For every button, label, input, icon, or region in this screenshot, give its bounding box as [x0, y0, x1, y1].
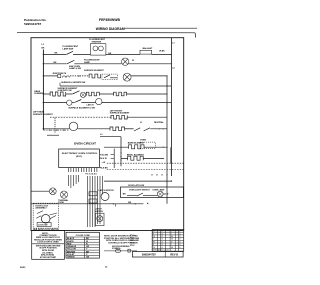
- svg-text:18: 18: [179, 239, 181, 241]
- svg-text:BLACK: BLACK: [67, 237, 75, 240]
- svg-text:BK: BK: [153, 241, 155, 243]
- svg-text:14: 14: [179, 233, 181, 235]
- svg-text:ELECTRONIC OVEN CONTROL: ELECTRONIC OVEN CONTROL: [62, 153, 98, 155]
- svg-text:Y: Y: [171, 233, 172, 235]
- svg-text:14: 14: [161, 244, 163, 246]
- svg-text:P4-5 BK: P4-5 BK: [100, 153, 108, 156]
- svg-text:BAKE ELEMENT: BAKE ELEMENT: [128, 142, 145, 145]
- svg-text:ELEMENT: ELEMENT: [34, 93, 44, 95]
- svg-text:LAMP: LAMP: [84, 61, 91, 64]
- svg-text:18: 18: [161, 239, 163, 241]
- svg-text:COLOR CODE: COLOR CODE: [76, 235, 91, 237]
- svg-text:V: V: [153, 239, 154, 241]
- svg-text:W-BK: W-BK: [159, 50, 165, 52]
- svg-text:AT ROOM TEMP: AT ROOM TEMP: [40, 256, 57, 259]
- svg-text:5995344787: 5995344787: [24, 22, 41, 26]
- svg-text:10: 10: [161, 241, 163, 243]
- svg-text:SURFACE ELEMENT & SW: SURFACE ELEMENT & SW: [68, 106, 94, 109]
- svg-text:W: W: [166, 194, 168, 196]
- svg-text:STARTER: STARTER: [92, 40, 102, 43]
- svg-text:P1 2 3 4 5 6: P1 2 3 4 5 6: [86, 172, 98, 175]
- svg-text:BK: BK: [123, 194, 127, 196]
- svg-text:+ W: + W: [102, 162, 106, 164]
- svg-text:JUNCTION P4: JUNCTION P4: [52, 72, 67, 75]
- svg-text:12: 12: [179, 241, 181, 243]
- svg-text:OVEN LIGHT SWITCH: OVEN LIGHT SWITCH: [129, 190, 150, 192]
- svg-text:10: 10: [161, 231, 163, 233]
- svg-text:FEF450WWB: FEF450WWB: [99, 18, 120, 22]
- svg-text:OVEN CIRCUIT: OVEN CIRCUIT: [74, 142, 96, 146]
- svg-text:16: 16: [179, 236, 181, 238]
- svg-text:LOCK DOOR IS USED: LOCK DOOR IS USED: [37, 241, 59, 243]
- svg-text:P4-6 W: P4-6 W: [100, 157, 107, 160]
- svg-text:14: 14: [161, 233, 163, 235]
- svg-text:LAMP 40W: LAMP 40W: [63, 47, 74, 50]
- svg-text:W: W: [132, 60, 134, 62]
- svg-text:R: R: [153, 244, 154, 246]
- svg-text:12: 12: [179, 231, 181, 233]
- svg-text:5995344787: 5995344787: [142, 254, 157, 257]
- svg-text:YELLOW: YELLOW: [67, 249, 76, 251]
- svg-text:BK: BK: [153, 231, 155, 233]
- svg-text:BR: BR: [171, 236, 173, 238]
- svg-text:GREEN: GREEN: [67, 257, 75, 259]
- svg-text:SWITCH: SWITCH: [95, 211, 103, 213]
- svg-text:ORANGE: ORANGE: [67, 245, 77, 248]
- svg-text:GN: GN: [171, 239, 173, 241]
- svg-text:BR: BR: [171, 247, 173, 249]
- svg-text:16: 16: [161, 236, 163, 238]
- svg-text:SURFACE ELEMENT: SURFACE ELEMENT: [84, 69, 104, 72]
- svg-text:36/23: 36/23: [20, 267, 26, 269]
- svg-text:LOCK SW: LOCK SW: [38, 225, 48, 227]
- svg-text:LATCH: LATCH: [87, 103, 94, 106]
- svg-text:NEUTRAL: NEUTRAL: [154, 121, 164, 124]
- svg-text:(EOC): (EOC): [76, 156, 82, 158]
- svg-text:16: 16: [179, 247, 181, 249]
- svg-text:LATCH MOTOR: LATCH MOTOR: [99, 189, 115, 192]
- svg-text:R: R: [153, 233, 154, 235]
- svg-text:GN: GN: [86, 257, 90, 259]
- svg-text:OR: OR: [153, 247, 155, 249]
- svg-text:WHITE: WHITE: [67, 241, 74, 243]
- svg-text:16: 16: [161, 247, 163, 249]
- svg-text:BK: BK: [128, 202, 132, 204]
- svg-text:W: W: [86, 241, 88, 243]
- svg-text:14: 14: [179, 244, 181, 246]
- svg-text:SURFACE ELEMENT: SURFACE ELEMENT: [33, 113, 53, 116]
- svg-text:WIRING DIAGRAM: WIRING DIAGRAM: [96, 27, 125, 31]
- svg-text:OVEN: OVEN: [140, 140, 146, 142]
- svg-text:& INFINITE SW: & INFINITE SW: [58, 90, 72, 92]
- svg-text:BALLAST: BALLAST: [143, 47, 153, 50]
- svg-text:Y: Y: [171, 244, 172, 246]
- svg-text:REV B: REV B: [170, 254, 178, 257]
- svg-text:SURFACE ELEMENT: SURFACE ELEMENT: [110, 112, 130, 115]
- svg-text:OR: OR: [153, 236, 155, 238]
- svg-text:SURFACE & INFINITE SW: SURFACE & INFINITE SW: [61, 81, 85, 84]
- svg-text:LAMP & SW: LAMP & SW: [69, 67, 81, 70]
- svg-text:ASSEMBLY: ASSEMBLY: [35, 207, 47, 210]
